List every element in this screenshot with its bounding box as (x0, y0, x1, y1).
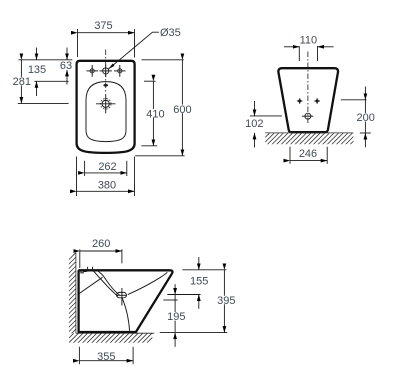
svg-text:Ø35: Ø35 (160, 27, 181, 39)
svg-text:110: 110 (300, 34, 318, 46)
svg-text:600: 600 (173, 104, 191, 116)
svg-text:195: 195 (167, 311, 185, 323)
svg-text:63: 63 (60, 60, 72, 72)
svg-text:102: 102 (245, 118, 263, 130)
svg-text:281: 281 (13, 76, 31, 88)
svg-text:410: 410 (146, 108, 164, 120)
svg-text:135: 135 (28, 64, 46, 76)
svg-text:260: 260 (92, 238, 110, 250)
svg-text:155: 155 (190, 276, 208, 288)
svg-text:200: 200 (357, 112, 375, 124)
svg-text:375: 375 (94, 20, 112, 32)
svg-text:355: 355 (97, 351, 115, 363)
svg-text:395: 395 (217, 295, 235, 307)
svg-text:262: 262 (98, 161, 116, 173)
svg-text:380: 380 (98, 179, 116, 191)
svg-text:246: 246 (299, 148, 317, 160)
